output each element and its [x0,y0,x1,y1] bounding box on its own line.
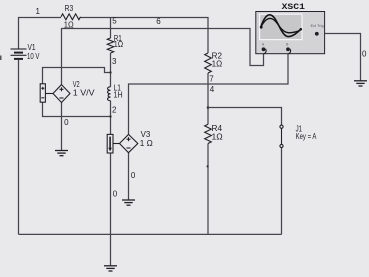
svg-text:XSC1: XSC1 [282,2,305,12]
svg-text:10 V: 10 V [27,52,40,61]
wire node5 vertical to R1 top [110,18,112,39]
svg-text:0: 0 [64,118,69,127]
resistor R3 [61,14,81,20]
svg-text:7: 7 [209,75,214,84]
wire V2 bottom to node 2 [43,102,111,116]
svg-text:3: 3 [112,57,117,66]
svg-text:6: 6 [156,17,161,26]
ground G1 under V2 [55,151,68,156]
wire R1 bottom to L1 top [110,53,112,87]
junction dot on R4 lead [207,165,209,167]
svg-text:B: B [286,42,288,46]
svg-text:R3: R3 [65,4,74,13]
svg-text:1Ω: 1Ω [64,20,74,29]
wire V2 control plus to node 3 [43,68,111,84]
scope terminal A [262,42,267,53]
wire R2 bottom through net7 down to R4 top [207,73,209,124]
svg-text:0: 0 [362,50,367,59]
resistor R2 [205,53,212,73]
wire V3 diamond bottom to ground G2 [128,153,130,200]
svg-text:1: 1 [36,7,41,16]
wire L1 bottom node2 to V3 sensor [110,101,112,135]
wire J1 bottom to bottom net [281,148,283,235]
oscilloscope XSC1 [256,12,325,54]
V3 current sensor box [107,134,119,153]
ccvs V3 diamond [120,134,138,152]
wire battery negative down left side [18,60,20,235]
wire scope ext trig to ground G4 [318,34,360,81]
wire net4 to switch J1 [208,108,282,126]
wire net7 V3 top to R2 bottom to scope input B [129,51,289,135]
scope ext trig terminal [315,32,319,36]
ground G2 under V3 [122,200,135,205]
wire V2 diamond bottom to ground G1 [61,103,63,151]
junction node 3 [109,71,111,73]
svg-text:0: 0 [131,171,136,180]
battery V1 [11,49,27,59]
svg-text:1 Ω: 1 Ω [140,139,153,148]
svg-text:Key = A: Key = A [296,132,317,141]
svg-text:1 V/V: 1 V/V [73,88,95,97]
svg-text:2: 2 [112,105,117,114]
inductor L1 [107,87,110,101]
svg-text:1H: 1H [114,90,123,99]
V2 control input box [40,84,53,102]
wire R4 bottom to bottom net [207,144,209,235]
svg-text:4: 4 [210,85,215,94]
left edge artifact [0,56,2,61]
junction net4 tap to J1 [207,106,210,109]
wire bottom net [19,233,282,235]
ground G3 bottom [104,266,117,271]
svg-text:1Ω: 1Ω [114,40,123,49]
vcvs V2 diamond [53,85,70,103]
resistor R4 [205,124,212,143]
switch J1 [280,125,283,147]
wire V3 sensor bottom down to ground G3 [110,153,112,266]
svg-text:0: 0 [113,190,118,199]
svg-text:Ext Trig: Ext Trig [311,24,324,28]
svg-text:V3: V3 [141,130,151,139]
junction node 2 [109,115,111,117]
svg-text:1Ω: 1Ω [212,132,223,141]
scope terminal B [286,42,291,53]
svg-text:5: 5 [112,17,117,26]
wire top net1/5/6 from battery over R3 to R2 top [19,18,209,54]
ground G4 right of scope [354,81,367,86]
resistor R1 [107,38,113,53]
wire net6 V2 top to scope input A [62,29,264,85]
svg-text:1Ω: 1Ω [212,60,223,69]
